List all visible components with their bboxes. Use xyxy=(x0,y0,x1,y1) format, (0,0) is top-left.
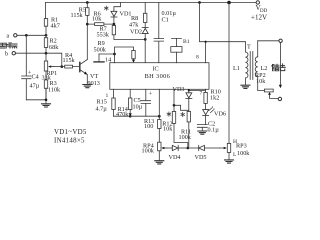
svg-text:500k: 500k xyxy=(94,47,107,54)
wire bottom row join xyxy=(114,115,160,117)
wire +12V feed to transformer xyxy=(200,3,246,42)
svg-text:VD6: VD6 xyxy=(214,111,226,118)
svg-text:100k: 100k xyxy=(142,148,155,155)
svg-text:10k: 10k xyxy=(163,126,173,133)
svg-text:68k: 68k xyxy=(49,44,59,51)
diode VD3 xyxy=(188,90,190,92)
svg-text:a: a xyxy=(7,33,10,40)
asterisk mark (R12 selected value) xyxy=(167,112,171,116)
svg-text:100k: 100k xyxy=(237,150,250,157)
node b-bend wiper junction xyxy=(60,65,63,68)
ground (RP4) xyxy=(155,161,164,164)
svg-text:R15: R15 xyxy=(97,99,107,106)
ground (C2) xyxy=(198,131,207,134)
resistor R9 xyxy=(115,47,134,60)
svg-text:1k2: 1k2 xyxy=(210,95,219,102)
wire b-line xyxy=(16,53,62,66)
wire RP4 wiper to VD4 xyxy=(167,147,172,149)
asterisk mark (R6 selected value) xyxy=(104,6,108,10)
svg-text:470k: 470k xyxy=(116,111,129,118)
svg-text:100k: 100k xyxy=(179,134,192,141)
svg-text:B1: B1 xyxy=(183,39,190,45)
svg-text:110k: 110k xyxy=(48,87,61,94)
resistor R14 xyxy=(129,89,131,98)
svg-text:553k: 553k xyxy=(97,32,110,39)
wire top +12V rail xyxy=(46,2,257,4)
svg-text:BH 3006: BH 3006 xyxy=(145,73,171,80)
node R14 bottom xyxy=(129,115,132,118)
crystal B1 xyxy=(172,38,182,46)
node ground join xyxy=(45,98,48,101)
ground (L1) xyxy=(241,85,250,88)
wire L2 top to output xyxy=(258,40,279,42)
svg-text:b: b xyxy=(5,51,8,58)
svg-text:115k: 115k xyxy=(71,12,84,19)
svg-text:10k: 10k xyxy=(256,78,266,85)
svg-text:VT: VT xyxy=(90,73,98,80)
label 输出 (output) xyxy=(272,64,286,71)
ground (left) xyxy=(42,104,51,107)
asterisk mark (R11 selected value) xyxy=(181,112,185,116)
svg-text:L2: L2 xyxy=(261,65,268,72)
node VD4/VD5/R11R12 xyxy=(187,147,190,150)
inductor L2 xyxy=(257,41,259,57)
LED VD6 xyxy=(203,110,209,115)
capacitor C1 xyxy=(154,3,164,63)
svg-text:IC: IC xyxy=(153,66,159,73)
wire R7 to VD2 node xyxy=(114,38,145,40)
node a/R1R2 xyxy=(45,34,48,37)
ground (RP3) xyxy=(225,160,234,163)
ground (emitter) xyxy=(83,85,92,88)
wire a-line xyxy=(17,34,46,36)
diode VD2 xyxy=(142,27,148,29)
node rail-R5 xyxy=(86,1,89,4)
wire +12V down to RP3 xyxy=(228,3,230,144)
svg-text:RP3: RP3 xyxy=(236,143,247,150)
capacitor C5 xyxy=(141,89,151,116)
potentiometer RP4 xyxy=(158,142,161,151)
svg-text:VD5: VD5 xyxy=(195,154,207,161)
resistor R12 xyxy=(173,89,175,111)
node rail VDD-feed xyxy=(198,1,201,4)
resistor R1 xyxy=(45,3,48,34)
node a/C4 xyxy=(25,34,28,37)
capacitor C2 xyxy=(197,125,207,131)
svg-text:+12V: +12V xyxy=(251,14,267,22)
svg-text:VD3: VD3 xyxy=(173,86,185,93)
node collector/R6 xyxy=(86,23,89,26)
terminal VDD +12V xyxy=(256,1,259,4)
wire C4/R3 to ground xyxy=(26,88,46,103)
svg-text:VD2: VD2 xyxy=(130,29,142,36)
svg-text:C4: C4 xyxy=(32,74,39,81)
svg-text:47µ: 47µ xyxy=(30,83,40,90)
svg-text:0.1µ: 0.1µ xyxy=(208,127,220,134)
svg-text:8: 8 xyxy=(196,55,199,61)
terminal output upper xyxy=(279,39,282,42)
diode VD5 xyxy=(188,147,199,149)
svg-text:L: L xyxy=(233,152,237,158)
resistor R5 xyxy=(86,3,88,25)
resistor R3 xyxy=(45,71,47,100)
resistor R8 xyxy=(144,3,146,28)
IC U1 BH3006 box xyxy=(110,63,209,90)
svg-text:T: T xyxy=(247,44,251,51)
svg-text:C1: C1 xyxy=(162,17,169,24)
transformer T core xyxy=(250,52,253,80)
resistor R4 xyxy=(62,66,80,68)
potentiometer RP2 xyxy=(264,89,273,92)
inductor L1 xyxy=(244,42,246,52)
svg-text:47k: 47k xyxy=(129,22,139,29)
ground (pin14) xyxy=(98,54,100,62)
svg-text:IN4148×5: IN4148×5 xyxy=(54,138,85,145)
svg-text:+: + xyxy=(149,91,153,98)
node rail-L1 feed xyxy=(227,1,231,5)
diode VD1 xyxy=(114,3,121,12)
resistor R11 xyxy=(187,111,190,122)
label 至探头 (to probe) xyxy=(0,43,17,48)
resistor R13 xyxy=(158,89,160,119)
svg-text:10µ: 10µ xyxy=(133,104,143,111)
potentiometer RP1 xyxy=(44,61,47,71)
svg-text:VD4: VD4 xyxy=(169,154,181,161)
node VD1/R6/R7 xyxy=(113,23,116,26)
terminal output lower xyxy=(278,97,281,100)
svg-text:VD1~VD5: VD1~VD5 xyxy=(54,129,87,136)
node row/R13 xyxy=(158,115,161,118)
wire output arrow xyxy=(279,43,281,85)
resistor R2 xyxy=(45,35,47,61)
node pin14 xyxy=(113,53,116,56)
node b/R2RP1 xyxy=(45,52,48,55)
capacitor C4 xyxy=(22,35,31,100)
resistor R6 xyxy=(87,23,114,25)
potentiometer RP3 xyxy=(227,143,230,152)
svg-text:115k: 115k xyxy=(63,57,76,64)
diode VD4 xyxy=(172,145,178,150)
svg-text:VD1: VD1 xyxy=(120,11,132,18)
svg-text:10k: 10k xyxy=(92,16,102,23)
svg-text:7: 7 xyxy=(200,91,203,97)
svg-text:4.7µ: 4.7µ xyxy=(96,106,108,113)
svg-text:100: 100 xyxy=(144,123,153,130)
svg-text:4k7: 4k7 xyxy=(51,23,60,30)
svg-text:L1: L1 xyxy=(233,65,240,72)
resistor R10 xyxy=(205,90,207,92)
wire pin14 xyxy=(99,54,115,63)
wire node to IC pin xyxy=(144,39,146,62)
transistor VT 9013 xyxy=(79,62,81,71)
node VD2 junction xyxy=(144,38,147,41)
resistor R7 xyxy=(113,24,115,39)
